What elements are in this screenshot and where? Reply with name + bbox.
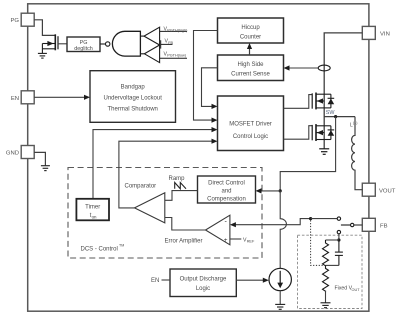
switch pole contact and blade (341, 223, 354, 226)
svg-text:High Side: High Side (237, 62, 264, 68)
block Timer ton (76, 199, 109, 221)
wire FB pin to pole (354, 224, 362, 226)
svg-text:EN: EN (151, 278, 159, 284)
comparator lower (PG low threshold) (140, 45, 159, 63)
DCS-Control dashed box (68, 168, 262, 259)
ground under divider (321, 303, 331, 308)
wire hiccup counter to driver input 2 (194, 31, 218, 123)
block Hiccup Counter (218, 18, 284, 43)
wire FB network to error amp minus input with arrow (230, 219, 311, 228)
ground at GND pin (41, 166, 50, 171)
wire gate to PG deglitch (58, 43, 67, 45)
wire SW sense down-left to control (280, 117, 335, 191)
wire comparator output to driver input 4 (119, 139, 218, 208)
node junction dot on FB sense (309, 217, 312, 220)
wire continues down with hop over FB line (280, 191, 286, 268)
wire divider mid node (326, 264, 339, 266)
svg-text:OUT: OUT (352, 288, 361, 292)
resistor R2 (323, 265, 329, 291)
block Output Discharge Logic (170, 269, 236, 297)
wire timer to driver input 3 (93, 127, 218, 199)
ramp symbol and label (169, 176, 187, 189)
node VREF stub and label (230, 237, 255, 243)
svg-text:Comparator: Comparator (125, 183, 157, 189)
wire driver to high-side gate (284, 95, 313, 109)
pin FB (362, 218, 387, 231)
svg-text:VOUT: VOUT (379, 188, 396, 194)
svg-text:+: + (224, 237, 228, 244)
svg-text:Counter: Counter (240, 35, 261, 41)
Fixed VOUT dashed box (298, 235, 363, 308)
wire PG pin to pass FET drain (34, 20, 55, 36)
svg-text:PG: PG (10, 18, 19, 24)
svg-text:PGTH(high): PGTH(high) (167, 29, 188, 33)
pin VIN (362, 26, 390, 39)
block MOSFET Driver Control Logic (218, 96, 284, 151)
switch bottom throw contact (337, 230, 340, 233)
svg-text:Bandgap: Bandgap (121, 84, 146, 90)
svg-text:and: and (221, 189, 231, 195)
current sense ellipse on VIN rail (318, 65, 330, 71)
svg-text:Output Discharge: Output Discharge (180, 277, 227, 283)
svg-text:VIN: VIN (380, 31, 390, 37)
pin PG (10, 13, 34, 26)
svg-text:Error Amplifier: Error Amplifier (165, 238, 203, 244)
node EN label and stub (151, 278, 170, 284)
svg-text:on: on (92, 214, 97, 219)
wire junction to switch top contact (311, 218, 338, 220)
node junction at direct control (279, 189, 282, 192)
block Direct Control and Compensation (198, 176, 256, 203)
inductor L(1) (350, 117, 362, 190)
wire VIN pin to main rail down to FETs (324, 33, 362, 149)
wire divider top node (326, 239, 339, 241)
svg-text:deglitch: deglitch (74, 46, 93, 52)
svg-text:FB: FB (380, 223, 388, 229)
wire deglitch to gate bubble (100, 43, 105, 45)
wire current source to ground (279, 291, 281, 305)
transistor high-side MOSFET Q1 (312, 93, 334, 110)
comparator (DCS) (125, 183, 165, 223)
wire driver to low-side gate (284, 126, 313, 140)
DCS-Control label (81, 244, 125, 253)
Fixed VOUT label (335, 285, 361, 292)
wire current sense to driver input 1 (202, 68, 218, 109)
wire SW node to inductor (324, 116, 355, 118)
ground under PG FET (38, 53, 47, 58)
wire EN pin to bandgap with arrow (34, 95, 90, 100)
op-amp error amplifier (165, 215, 230, 245)
comparator upper (PG high threshold) (140, 27, 159, 45)
svg-text:MOSFET Driver: MOSFET Driver (229, 122, 272, 128)
node VPGTH(low) label and stub (160, 51, 187, 58)
node SW junction dot (334, 115, 337, 118)
svg-text:Ramp: Ramp (169, 176, 186, 182)
node VPGTH(high) label and stub (160, 26, 189, 32)
ground under current source (275, 304, 285, 309)
svg-text:DCS - Control: DCS - Control (81, 247, 118, 253)
svg-text:Fixed V: Fixed V (335, 285, 353, 291)
svg-text:GND: GND (6, 151, 19, 157)
block Bandgap / UVLO / Thermal Shutdown (90, 71, 176, 123)
block PG deglitch (67, 37, 100, 52)
svg-text:FB: FB (168, 41, 173, 45)
wire arrow into direct control block (256, 188, 281, 193)
svg-text:Compensation: Compensation (207, 197, 246, 203)
pin EN (11, 91, 34, 104)
svg-text:Thermal Shutdown: Thermal Shutdown (108, 106, 158, 112)
wire bottom contact to divider top node (338, 234, 340, 240)
resistor R1 (323, 240, 329, 266)
block High Side Current Sense (218, 55, 284, 81)
svg-text:Logic: Logic (196, 286, 210, 292)
svg-text:Direct Control: Direct Control (208, 181, 245, 187)
svg-text:(1): (1) (353, 121, 357, 125)
transistor low-side MOSFET Q2 (312, 124, 334, 141)
svg-text:Control Logic: Control Logic (233, 134, 268, 140)
transistor PG open-drain FET (42, 34, 58, 53)
wire discharge logic to current source with arrow (236, 278, 268, 283)
capacitor C1 (335, 240, 343, 265)
svg-text:Hiccup: Hiccup (241, 25, 260, 31)
svg-text:Timer: Timer (85, 205, 100, 211)
pin GND (6, 146, 34, 159)
wire ellipse to current sense block with arrow (284, 65, 319, 70)
svg-text:PGTH(low): PGTH(low) (167, 54, 187, 58)
node divider top dot (337, 238, 340, 241)
node VFB label and stub (161, 39, 174, 49)
switch top throw contact (337, 217, 340, 220)
svg-text:TM: TM (119, 244, 124, 248)
ground under low-side FET (319, 149, 329, 155)
wire GND pin to ground (34, 152, 45, 165)
pin VOUT (362, 183, 395, 196)
wire comparator bottom input to error amp output (165, 218, 206, 231)
svg-text:EN: EN (11, 96, 19, 102)
svg-text:Undervoltage Lockout: Undervoltage Lockout (104, 95, 163, 101)
wire arrow current sense up to hiccup counter (247, 43, 252, 55)
dotted feedback tap line (311, 220, 324, 265)
wire R2 to ground (325, 291, 327, 303)
svg-text:SW: SW (326, 110, 336, 116)
NAND gate (mirrored) with bubble (106, 31, 141, 56)
svg-text:REF: REF (247, 240, 255, 244)
wire comparator top input to direct control (165, 191, 198, 201)
current source I1 (269, 268, 291, 290)
svg-text:Current Sense: Current Sense (231, 72, 270, 78)
